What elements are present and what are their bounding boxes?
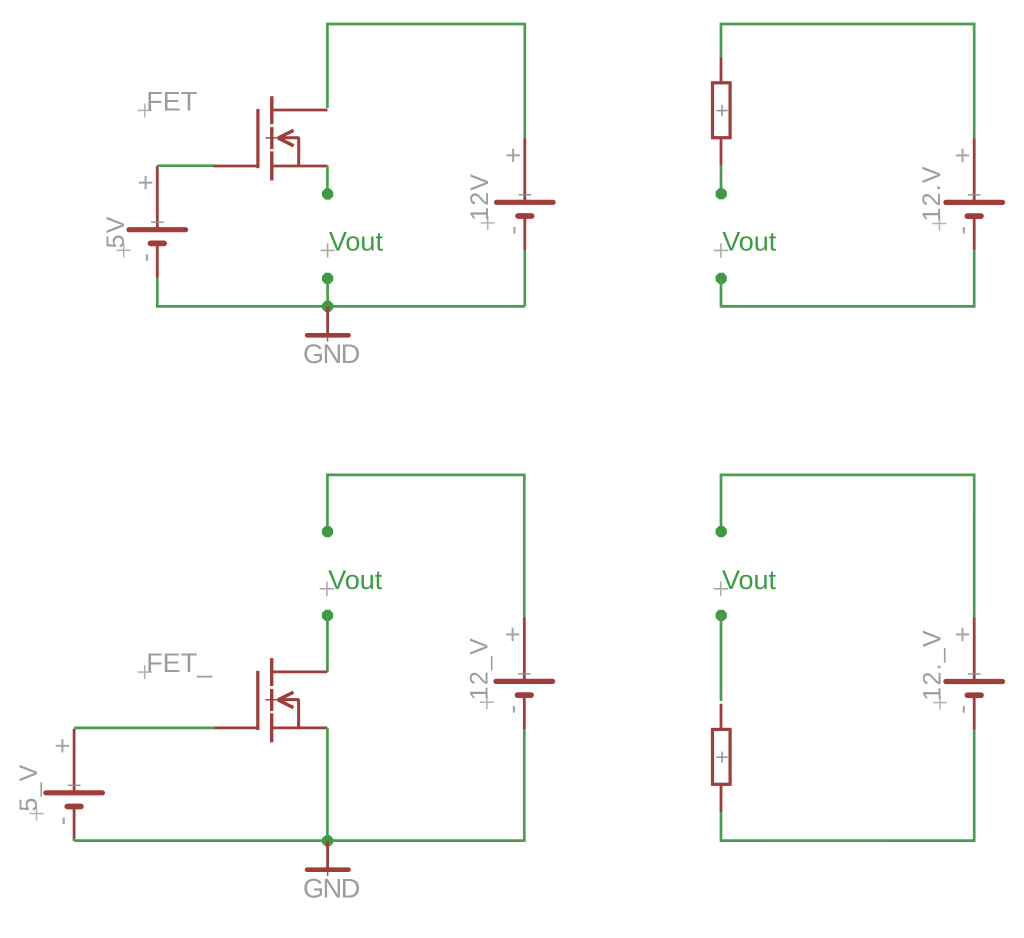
ground GND (C3) pin lead (326, 841, 329, 870)
battery 5_V (C3) negative plate (67, 804, 81, 810)
svg-text:FET: FET (146, 86, 197, 116)
battery 12.V (C2) negative pin lead (973, 218, 976, 250)
battery 12V (C1) negative pin lead (523, 218, 526, 250)
transistor FET_ (C3) bulk tick (265, 699, 278, 701)
node Vout lower (C2) (junction dot) (716, 273, 727, 284)
battery 12V (C1) origin cross tick (519, 194, 532, 196)
transistor FET (C1) arrowhead (278, 130, 294, 138)
transistor FET (C1) bulk tick (266, 137, 279, 139)
battery 5V (C1) value label 5V origin cross (117, 249, 131, 251)
battery 12.V (C2) positive pin lead (973, 138, 976, 200)
battery 5V (C1) negative plate (151, 241, 165, 247)
transistor FET_ (C3) bulk arrow shaft (278, 698, 300, 701)
transistor FET (C1) channel segment drain (270, 96, 273, 124)
ground GND (C1) origin tick (327, 338, 329, 342)
battery 12V (C1) plus pin marker (506, 154, 519, 156)
transistor FET_ (C3) arrowhead (278, 692, 294, 700)
wire C2 resistor bottom to Vout node (720, 165, 723, 189)
wire C3 Vout to drain (326, 615, 329, 672)
battery 12V (C1) value label 12V origin cross (481, 222, 495, 224)
wire C4 12V battery bottom to bus (973, 729, 976, 842)
wire C4 resistor bottom to bus (721, 812, 974, 841)
battery 12.V (C2) value label 12.V origin cross (932, 223, 946, 225)
transistor FET (C1) gate bar (256, 109, 259, 168)
wire C1 5V battery bottom to bus (156, 278, 159, 308)
battery 12.V (C2) plus pin marker (956, 154, 969, 156)
svg-text:12._V: 12._V (919, 629, 947, 700)
battery 5V (C1) minus pin marker (146, 254, 148, 261)
transistor FET_ (C3) drain pin lead (272, 671, 328, 674)
battery 12V (C1) positive plate (497, 200, 554, 205)
node Vout (C3) label origin cross (320, 588, 334, 590)
node Vout upper (C3) (junction dot) (322, 526, 333, 537)
resistor R (C2) body (713, 83, 731, 138)
svg-text:5V: 5V (102, 215, 130, 248)
battery 5V (C1) plus pin marker (139, 182, 152, 184)
battery 12_V (C3) positive pin lead (523, 617, 526, 679)
wire C4 Vout node to 12V battery top (721, 475, 974, 618)
svg-text:Vout: Vout (722, 226, 777, 256)
transistor FET_ (C3) source pin lead (272, 727, 328, 730)
wire C1 bottom bus (157, 305, 525, 308)
svg-text:12.V: 12.V (918, 165, 946, 221)
ground GND (C3) bar (307, 867, 348, 872)
node Vout upper (C1) (junction dot) (322, 188, 333, 199)
transistor FET_ (C3) channel segment bulk (270, 689, 273, 711)
ground GND (C3) origin tick (327, 872, 329, 876)
wire C3 Vout node to 12V battery top (327, 475, 524, 618)
battery 5V (C1) positive plate (129, 227, 186, 232)
node Vout lower (C1) (junction dot) (322, 273, 333, 284)
resistor R (C4) origin cross (716, 756, 727, 758)
resistor R (C2) origin cross (716, 110, 727, 112)
transistor FET (C1) bulk arrow shaft (278, 136, 300, 139)
battery 12V (C1) minus pin marker (513, 227, 515, 234)
node Vout lower (C4) (junction dot) (716, 610, 727, 621)
ground GND (C1) pin lead (326, 306, 329, 335)
node Vout lower (C3) (junction dot) (322, 610, 333, 621)
battery 5_V (C3) negative pin lead (73, 809, 76, 841)
node Vout (C2) label origin cross (714, 249, 728, 251)
battery 12._V (C4) negative pin lead (973, 697, 976, 729)
resistor R (C4) body (713, 729, 731, 784)
battery 12._V (C4) plus pin marker (956, 634, 969, 636)
battery 12.V (C2) minus pin marker (963, 227, 965, 234)
wire C2 Vout to bus (721, 278, 974, 306)
battery 5_V (C3) origin cross tick (68, 784, 81, 786)
resistor R (C4) bottom pin lead (720, 785, 723, 812)
battery 5_V (C3) positive plate (46, 790, 103, 795)
transistor FET (C1) channel segment source (270, 151, 273, 180)
battery 12_V (C3) positive plate (496, 679, 553, 684)
node Vout upper (C4) (junction dot) (716, 526, 727, 537)
svg-text:Vout: Vout (328, 565, 383, 595)
wire C3 bottom bus (74, 839, 524, 842)
wire C1 Vout to bus (326, 278, 329, 306)
battery 5V (C1) negative pin lead (156, 246, 159, 278)
battery 12._V (C4) value label 12._V origin cross (933, 702, 947, 704)
wire C2 12V battery bottom to bus (973, 250, 976, 307)
node bus junction (C3) (junction dot) (322, 835, 333, 846)
battery 5V (C1) positive pin lead (156, 166, 159, 228)
transistor FET_ (C3) channel segment drain (270, 658, 273, 686)
battery 12_V (C3) negative plate (518, 692, 532, 698)
battery 12._V (C4) origin cross tick (968, 673, 981, 675)
battery 12._V (C4) positive pin lead (973, 618, 976, 680)
node bus junction (C1) (junction dot) (322, 301, 333, 312)
battery 12_V (C3) value label 12_V origin cross (480, 701, 494, 703)
battery 12._V (C4) minus pin marker (963, 706, 965, 713)
svg-text:GND: GND (303, 339, 360, 369)
wire C4 Vout to resistor (720, 615, 723, 701)
node Vout (C1) label origin cross (320, 249, 334, 251)
wire C3 gate net (74, 727, 214, 730)
battery 5V (C1) origin cross tick (151, 221, 164, 223)
wire C3 12V battery bottom to bus (523, 729, 526, 842)
battery 12.V (C2) origin cross tick (968, 194, 981, 196)
svg-text:GND: GND (303, 874, 360, 904)
wire C1 12V battery bottom to bus (523, 250, 526, 306)
battery 12.V (C2) negative plate (967, 213, 981, 219)
battery 12V (C1) negative plate (518, 213, 532, 219)
battery 12.V (C2) positive plate (946, 200, 1003, 205)
node Vout (C4) label origin cross (714, 588, 728, 590)
resistor R (C2) top pin lead (720, 57, 723, 82)
battery 12_V (C3) plus pin marker (506, 633, 519, 635)
wire C3 5V battery bottom to bus corner (73, 838, 76, 841)
transistor FET_ (C3) gate bar (256, 671, 259, 730)
svg-text:Vout: Vout (329, 226, 384, 256)
transistor FET (C1) source pin lead (272, 165, 328, 168)
battery 5_V (C3) plus pin marker (56, 745, 69, 747)
wire C1 drain to 12V battery top (327, 24, 524, 138)
battery 5_V (C3) value label 5_V origin cross (30, 813, 44, 815)
transistor FET_ (C3) bulk connection (297, 700, 300, 728)
resistor R (C4) top pin lead (720, 704, 723, 729)
wire C1 source to Vout node (326, 166, 329, 189)
transistor FET_ (C3) channel segment source (270, 713, 273, 742)
transistor FET (C1) name label origin cross (138, 109, 152, 111)
svg-text:Vout: Vout (722, 565, 777, 595)
battery 12_V (C3) negative pin lead (523, 697, 526, 729)
wire C1 gate net (157, 164, 214, 167)
battery 5_V (C3) positive pin lead (73, 729, 76, 791)
transistor FET_ (C3) name label origin cross (138, 671, 152, 673)
battery 12._V (C4) negative plate (967, 692, 981, 698)
resistor R (C2) bottom pin lead (720, 139, 723, 166)
svg-text:12_V: 12_V (465, 637, 493, 700)
battery 12V (C1) positive pin lead (523, 138, 526, 200)
svg-text:12V: 12V (466, 173, 494, 221)
wire C3 source to bus (326, 728, 329, 841)
battery 5_V (C3) minus pin marker (63, 817, 65, 824)
svg-text:5_V: 5_V (15, 764, 43, 812)
battery 12._V (C4) positive plate (946, 679, 1003, 684)
transistor FET (C1) drain pin lead (272, 109, 328, 112)
transistor FET (C1) channel segment bulk (270, 127, 273, 149)
svg-text:FET_: FET_ (146, 648, 213, 678)
ground GND (C1) bar (307, 333, 348, 338)
wire C2 resistor top to 12V battery top (721, 24, 974, 139)
battery 12_V (C3) origin cross tick (518, 673, 531, 675)
transistor FET_ (C3) gate pin lead (213, 727, 257, 730)
transistor FET (C1) bulk connection (297, 138, 300, 166)
transistor FET (C1) gate pin lead (213, 165, 257, 168)
node Vout upper (C2) (junction dot) (716, 188, 727, 199)
battery 12_V (C3) minus pin marker (513, 706, 515, 713)
